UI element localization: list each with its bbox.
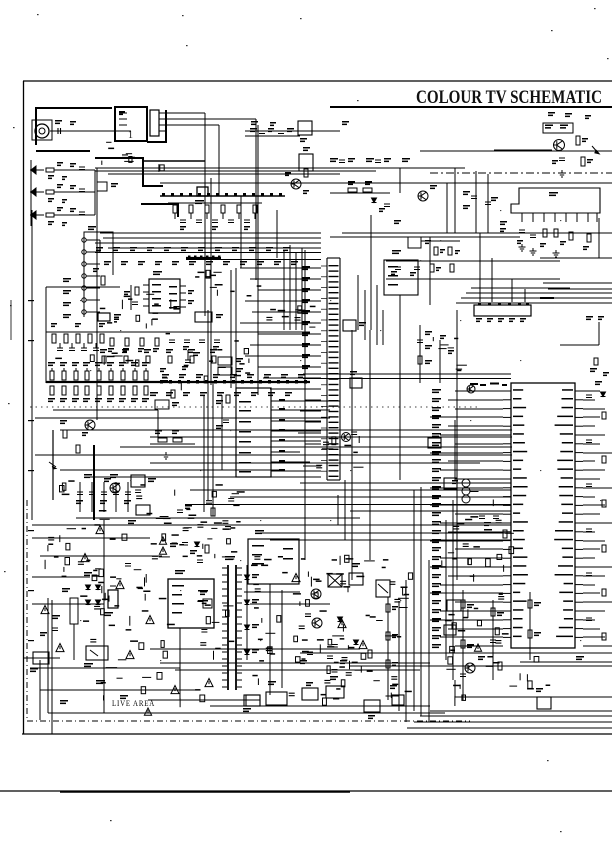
border frame bottom edge: [22, 733, 612, 735]
IC2 box: [236, 388, 285, 477]
border frame top edge: [23, 80, 612, 82]
page edge line bottom: [0, 791, 612, 792]
live area dash-dot boundary: [27, 500, 470, 721]
AFT parts chain x420: [417, 325, 467, 377]
thick L path y204: [141, 204, 178, 217]
wire y470 left: [60, 469, 280, 471]
col components x530: [528, 592, 541, 660]
IC U3 box: [149, 271, 180, 313]
cluster right of ladder y360: [181, 340, 250, 390]
IC U2 right wires: [583, 391, 612, 646]
q cluster y480: [40, 420, 130, 493]
title underline: [330, 106, 612, 108]
labels row y128 right of tuner: [245, 128, 300, 136]
big cap C power: [104, 586, 118, 616]
bus y455: [35, 454, 512, 456]
small box q3 area: [408, 237, 460, 255]
extra specks field: [80, 210, 601, 661]
saw filter F1: [511, 188, 600, 222]
mid right cluster y560-640: [441, 560, 509, 652]
antenna chain labels col: [48, 175, 67, 226]
wire box left area: [53, 410, 158, 440]
long vertical x455b: [454, 420, 456, 480]
box x350 y378: [350, 371, 362, 388]
resistor R top-right: [576, 136, 588, 145]
small box x302 y688: [302, 682, 318, 700]
transistor Q top-right: [554, 140, 565, 151]
long vertical x352: [351, 330, 353, 580]
labels near saw left: [500, 221, 507, 232]
wires bottom left: [30, 600, 260, 734]
col components x493: [474, 600, 504, 680]
cluster bottom mid2: [320, 644, 397, 705]
wire Q base: [494, 149, 552, 151]
label row y264: [104, 261, 298, 265]
wire right edge x599: [560, 316, 604, 345]
small box J2: [97, 182, 118, 191]
vert bundle x399-430: [399, 487, 429, 722]
noise at U2 top-left: [467, 383, 507, 394]
small parts row y520 right: [479, 516, 507, 538]
long vertical x370: [369, 330, 371, 560]
cluster power mid: [151, 517, 238, 560]
chopper transformer T1: [222, 556, 242, 690]
parts x150-184 y395: [150, 392, 179, 409]
wire y233 bus: [330, 233, 612, 237]
row above ladder y350: [100, 349, 217, 363]
cap top-right: [552, 158, 565, 164]
cluster x194 y266: [195, 270, 261, 296]
wire y176 caps pair: [463, 171, 498, 233]
left inner vertical x32: [31, 210, 33, 520]
bus y437: [150, 436, 512, 438]
left thick vertical: [53, 430, 94, 520]
verticals x284-302 down to U1: [284, 245, 302, 330]
tuner pin circles column: [82, 237, 100, 317]
heatsink hatch: [200, 591, 212, 608]
left coil: [62, 588, 78, 660]
relay box: [376, 580, 390, 597]
IC U1 vertical strip: [321, 258, 340, 480]
box x343 y320: [343, 320, 366, 331]
labels top right under line: [548, 112, 591, 119]
label row y250: [96, 247, 290, 251]
bus y463: [150, 462, 480, 464]
small box x364 y700: [364, 700, 380, 719]
power area cluster3: [80, 569, 175, 650]
box x299 y154: [299, 147, 313, 171]
IC U3 pins left: [143, 285, 186, 307]
svg-text:1: 1: [128, 130, 133, 141]
connector pad strip y196: [160, 193, 285, 204]
long vertical x453: [446, 500, 453, 680]
power switch box: [84, 646, 108, 667]
bus y504: [185, 504, 511, 506]
winding circles x466: [452, 479, 470, 503]
wires into U2 top: [303, 330, 511, 383]
u2 bottom-left corner wires: [260, 480, 511, 540]
wire y477 left: [90, 476, 310, 478]
psu extra labels: [62, 562, 147, 602]
long vertical x430 y237-305: [429, 237, 431, 305]
tuner shield wire loop: [36, 108, 166, 186]
power area labels bottom: [60, 680, 128, 704]
wire top bus y183: [160, 182, 612, 184]
wire y283/289 right: [540, 283, 612, 299]
flyback cluster right: [446, 656, 550, 706]
IF components under tuner: [102, 142, 164, 172]
bottom right step lines: [455, 680, 612, 697]
parts left of IC2: [150, 430, 195, 459]
thick link y161: [143, 160, 205, 162]
long vertical x213: [211, 383, 215, 516]
IC2 right wire labels: [316, 432, 441, 468]
crystal box X1: [98, 313, 121, 323]
band labels column: [63, 278, 71, 318]
IC U2 jungle: [503, 383, 583, 648]
cluster above ladder: [55, 353, 139, 367]
IC U2 right parts: [586, 381, 606, 640]
diode arrow row3: [30, 207, 95, 219]
secondary diodes column: [245, 565, 260, 660]
npn x296 y184: [285, 169, 309, 194]
wire y592 mid: [244, 592, 330, 604]
caps row y220: [180, 220, 250, 230]
title text: [416, 87, 602, 108]
diode arrow top-right: [592, 146, 599, 154]
bottom mid cluster A: [251, 556, 333, 645]
stacked boxes x218: [218, 357, 243, 375]
diode arrow row1: [30, 162, 95, 174]
sound IC box: [248, 530, 299, 584]
extra bus y483-511 right: [300, 483, 511, 511]
col components x388: [386, 597, 398, 700]
IC U3 parts left: [124, 285, 194, 310]
wire x46 vertical: [45, 287, 47, 383]
IC U1 left wires: [240, 268, 321, 477]
caps bank top of PSU: [76, 474, 312, 518]
resistor row y205: [168, 203, 262, 219]
tuner block TU1: [115, 107, 147, 141]
mains входной cluster: [23, 652, 60, 672]
gnd top-right: [559, 170, 566, 177]
transistor Q bottom2: [312, 618, 322, 628]
wire top bus y168: [95, 167, 465, 169]
diodes bottom: [205, 574, 367, 687]
small box 2: [197, 187, 208, 196]
live area text: [112, 698, 155, 708]
wire y662 right: [520, 656, 612, 662]
resistor x103: [46, 268, 120, 287]
labels cluster x270 y299: [266, 306, 315, 327]
bottom mid cluster B: [332, 555, 413, 639]
IC2 right wires: [277, 401, 340, 471]
labels y120 mid: [245, 121, 349, 131]
wire top bus y171: [95, 170, 376, 172]
left margin stub marks: [11, 300, 34, 641]
mid right cluster y500: [444, 478, 514, 567]
resistor ladder on bus y382: [46, 362, 310, 402]
wire y604 left: [32, 577, 104, 604]
bus y525: [32, 524, 511, 526]
IC U2 left net labels: [432, 389, 441, 648]
long vertical x455 ext: [456, 310, 458, 580]
label pair x394 y220: [394, 220, 401, 224]
power area cluster2: [164, 484, 245, 558]
bus y430: [60, 429, 512, 431]
ac box: [349, 563, 363, 585]
delay line wires up: [480, 233, 525, 302]
col components x463: [460, 590, 474, 700]
IC U1 left labels: [302, 266, 310, 369]
tuner side connector: [150, 110, 167, 136]
wire y151 right: [420, 150, 612, 152]
snubber parts left of T1: [190, 542, 209, 563]
opto coupler: [243, 695, 260, 712]
long vertical x204: [203, 395, 205, 512]
box x298 y121: [298, 121, 312, 142]
IC U2 left wires: [430, 391, 503, 646]
verticals x231-236 to IC2: [231, 268, 236, 388]
power IC STR box: [168, 570, 214, 628]
bus y330 with resistors: [46, 323, 310, 352]
thick pad bus y258: [186, 256, 321, 260]
long vertical x208: [207, 310, 209, 500]
long vertical x258: [257, 125, 259, 395]
bridge cluster: [84, 572, 101, 605]
top-center parts y190: [330, 181, 390, 212]
extra bottom verticals: [270, 584, 282, 695]
diode arrow row2: [30, 184, 95, 196]
dash line y173 right: [430, 172, 612, 174]
IC2 left parts: [216, 395, 230, 470]
wire y713 long: [48, 520, 430, 713]
bus y490: [190, 489, 511, 491]
bus y497: [230, 496, 511, 498]
long wires y653-666 right: [300, 653, 612, 666]
long vertical x400: [399, 168, 401, 193]
q cluster right y660: [465, 656, 502, 673]
degauss parts: [40, 606, 64, 652]
top-center transistor q2: [418, 185, 437, 201]
bus y418: [35, 417, 330, 419]
long vertical x447: [446, 183, 448, 233]
wire top bus y174: [108, 173, 340, 175]
parts right of ladder: [160, 368, 175, 398]
bottom boxes row: [244, 676, 551, 709]
labels above U2 right: [590, 358, 609, 376]
bus y447: [120, 446, 512, 448]
bus y538-556 left: [32, 537, 178, 556]
long vertical x455: [454, 168, 456, 233]
power area cluster1: [45, 480, 170, 569]
long vertical x305: [304, 250, 306, 560]
svg-text:COLOUR TV SCHEMATIC: COLOUR TV SCHEMATIC: [416, 87, 602, 108]
bottom mid cluster C: [252, 646, 411, 696]
resistor R2 top-right: [581, 157, 593, 166]
transistor cluster top-right box: [543, 123, 573, 133]
box B y260: [384, 250, 418, 295]
verticals center bundle: [358, 215, 383, 345]
vertical x277: [276, 210, 278, 258]
caps row y265: [386, 261, 560, 279]
wire bundle y292-307: [456, 288, 612, 303]
extra long verticals mid: [97, 168, 211, 420]
bottom buses: [150, 649, 445, 713]
parts column x194-229: [197, 601, 234, 660]
bus pads right section: [160, 374, 307, 396]
bus y518: [150, 517, 360, 519]
border frame left edge: [23, 81, 25, 734]
wire tuner outputs: [167, 113, 256, 316]
long vertical x400b: [399, 295, 401, 480]
warning triangles power: [81, 526, 179, 716]
vertical x241: [240, 196, 242, 268]
cluster left-mid y295: [100, 294, 180, 334]
delay line block: [474, 303, 531, 323]
box x195 y312: [195, 312, 223, 322]
wire y258 right: [540, 218, 612, 258]
speaker parts: [300, 650, 372, 664]
mid components y508: [128, 505, 192, 524]
box small y470: [131, 475, 156, 487]
right bottom nested wires: [407, 711, 612, 728]
labels above top bus: [330, 158, 410, 163]
saw filter hanging parts: [517, 229, 591, 257]
psu extra labels2: [101, 651, 205, 707]
parts x182-203: [182, 350, 200, 370]
dotted scan artifact y407: [30, 406, 480, 408]
antenna jack: [32, 120, 131, 140]
transistor Q bottom1: [311, 589, 321, 599]
antenna chain vertical: [31, 160, 95, 226]
bridge box X: [328, 574, 342, 587]
wire loop above pins: [84, 226, 113, 275]
long buses y233-252: [95, 233, 321, 253]
